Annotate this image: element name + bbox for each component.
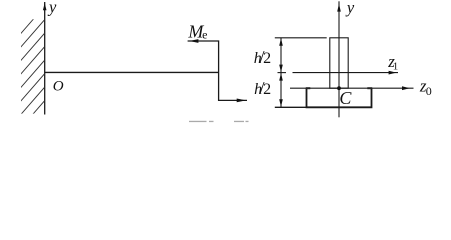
- svg-text:C: C: [339, 88, 352, 108]
- svg-text:y: y: [345, 0, 355, 17]
- svg-text:O: O: [53, 79, 64, 95]
- svg-text:2: 2: [263, 50, 271, 67]
- svg-text:e: e: [202, 27, 207, 41]
- svg-text:y: y: [47, 0, 57, 17]
- svg-text:1: 1: [393, 60, 399, 72]
- svg-text:0: 0: [426, 84, 432, 98]
- svg-text:2: 2: [263, 81, 271, 98]
